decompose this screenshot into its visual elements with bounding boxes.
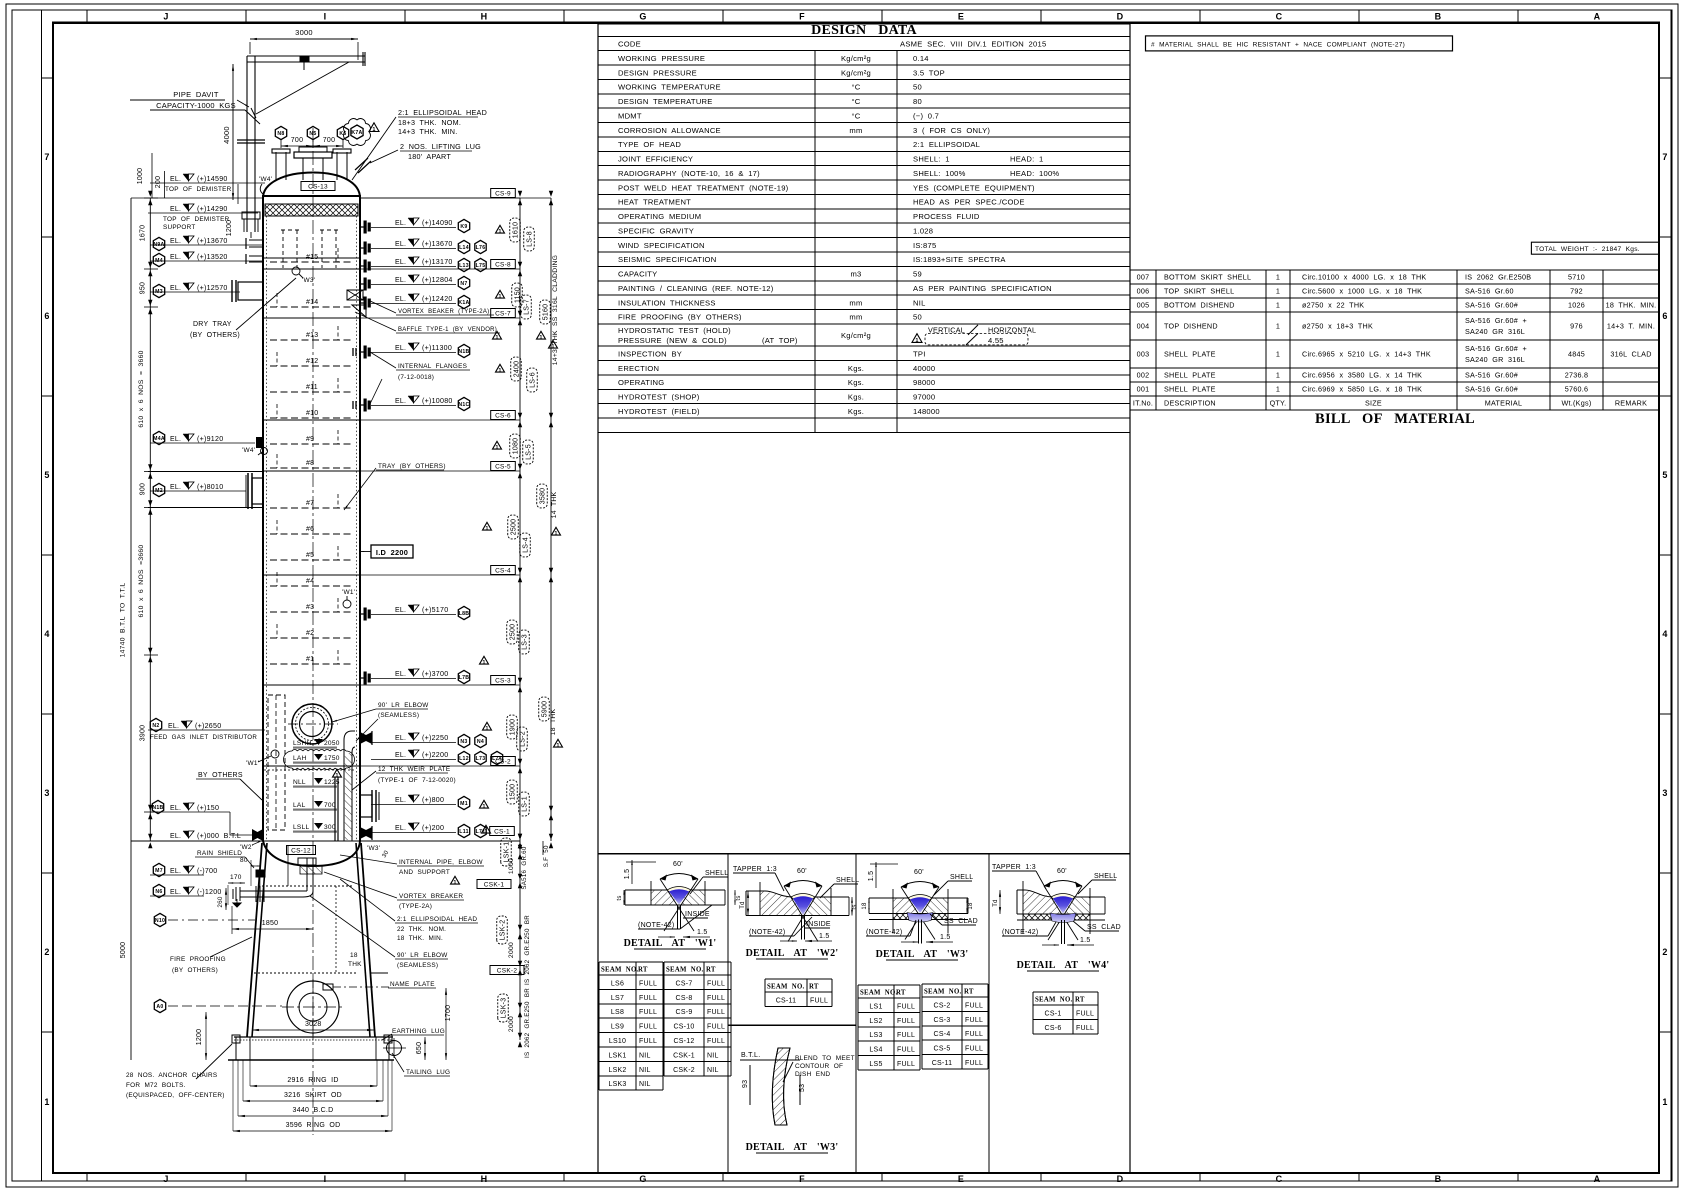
svg-text:1: 1 xyxy=(484,829,487,835)
svg-text:LS-4: LS-4 xyxy=(523,537,530,553)
svg-text:80: 80 xyxy=(913,97,922,106)
svg-text:SEAM NO.: SEAM NO. xyxy=(601,967,638,974)
svg-text:4: 4 xyxy=(44,629,49,639)
svg-text:OPERATING: OPERATING xyxy=(618,378,664,387)
svg-text:H: H xyxy=(481,12,488,22)
svg-text:H: H xyxy=(481,1174,488,1184)
svg-text:LSLL: LSLL xyxy=(293,824,309,831)
pipe davit xyxy=(246,56,248,232)
svg-text:NIL: NIL xyxy=(707,1052,719,1059)
svg-text:93: 93 xyxy=(742,1080,749,1088)
svg-text:EL.: EL. xyxy=(168,723,179,730)
svg-text:Circ.5600 x 1000 LG. x 18 THK: Circ.5600 x 1000 LG. x 18 THK xyxy=(1302,287,1422,296)
svg-text:CS-5: CS-5 xyxy=(495,464,511,471)
svg-text:FULL: FULL xyxy=(965,1002,983,1009)
weld detail panel borders xyxy=(598,854,1130,1173)
svg-text:#9: #9 xyxy=(306,436,314,443)
svg-text:EL.: EL. xyxy=(170,238,181,245)
svg-text:LS3: LS3 xyxy=(869,1032,882,1039)
svg-text:300: 300 xyxy=(324,824,336,831)
svg-text:N1C: N1C xyxy=(458,402,469,408)
svg-text:002: 002 xyxy=(1137,371,1150,380)
svg-text:FOR M72 BOLTS.: FOR M72 BOLTS. xyxy=(126,1082,186,1089)
svg-text:NIL: NIL xyxy=(707,1067,719,1074)
svg-text:I.D 2200: I.D 2200 xyxy=(376,548,408,557)
nozzle K6 on head xyxy=(336,152,338,180)
svg-text:IS:875: IS:875 xyxy=(913,241,936,250)
svg-text:ø2750 x 22 THK: ø2750 x 22 THK xyxy=(1302,301,1364,310)
skirt seam lines CSK-1 CSK-2 xyxy=(258,885,352,887)
svg-text:14+3 THK SS 316L CLADDING: 14+3 THK SS 316L CLADDING xyxy=(552,255,559,365)
svg-text:L13: L13 xyxy=(459,263,469,269)
svg-text:SPECIFIC GRAVITY: SPECIFIC GRAVITY xyxy=(618,226,694,235)
svg-text:N1B: N1B xyxy=(152,805,163,811)
svg-text:60': 60' xyxy=(673,861,683,868)
svg-text:2500: 2500 xyxy=(511,519,518,536)
svg-text:CS-3: CS-3 xyxy=(495,678,511,685)
svg-text:CS-11: CS-11 xyxy=(932,1060,953,1067)
svg-text:mm: mm xyxy=(849,126,862,135)
svg-text:LS-6: LS-6 xyxy=(530,372,537,388)
svg-text:(+)14090: (+)14090 xyxy=(422,219,453,227)
svg-text:EL.: EL. xyxy=(395,825,406,832)
svg-text:DESCRIPTION: DESCRIPTION xyxy=(1164,399,1216,408)
svg-text:EL.: EL. xyxy=(395,259,406,266)
svg-text:14+3 THK. MIN.: 14+3 THK. MIN. xyxy=(398,127,458,136)
svg-text:FULL: FULL xyxy=(639,1024,657,1031)
svg-text:(+)200: (+)200 xyxy=(422,824,444,832)
svg-text:SEAM NO.: SEAM NO. xyxy=(767,984,804,991)
svg-text:SEISMIC SPECIFICATION: SEISMIC SPECIFICATION xyxy=(618,255,716,264)
layout divider lines xyxy=(597,23,599,1173)
weld detail W3 sketch xyxy=(893,898,919,914)
svg-text:FULL: FULL xyxy=(1076,1025,1094,1032)
svg-text:DESIGN PRESSURE: DESIGN PRESSURE xyxy=(618,68,697,77)
svg-text:A: A xyxy=(1594,12,1601,22)
svg-text:4845: 4845 xyxy=(1568,350,1585,359)
svg-text:K7A: K7A xyxy=(351,130,362,136)
svg-text:PRESSURE (NEW & COLD): PRESSURE (NEW & COLD) xyxy=(618,336,727,345)
svg-text:K9: K9 xyxy=(460,224,467,230)
svg-text:(+)9120: (+)9120 xyxy=(197,435,223,443)
svg-text:1500: 1500 xyxy=(510,784,517,801)
svg-text:(+)10080: (+)10080 xyxy=(422,397,453,405)
2:1 ellipsoidal bottom head xyxy=(263,841,360,866)
svg-text:LSHH: LSHH xyxy=(293,740,312,747)
svg-text:(+)2250: (+)2250 xyxy=(422,734,448,742)
svg-text:#8: #8 xyxy=(306,460,314,467)
svg-text:1: 1 xyxy=(495,335,498,341)
svg-text:2736.8: 2736.8 xyxy=(1565,371,1588,380)
svg-text:Kgs.: Kgs. xyxy=(848,407,864,416)
svg-text:L7B: L7B xyxy=(459,675,470,681)
svg-text:CS-1: CS-1 xyxy=(494,829,510,836)
svg-text:(+)5170: (+)5170 xyxy=(422,606,448,614)
svg-text:N5: N5 xyxy=(309,131,316,137)
svg-text:INSIDE: INSIDE xyxy=(806,921,831,928)
svg-text:CSK-1: CSK-1 xyxy=(484,882,505,889)
svg-text:1026: 1026 xyxy=(1568,301,1585,310)
svg-text:BLEND TO MEET: BLEND TO MEET xyxy=(795,1055,855,1062)
seam RT table for detail W2 xyxy=(765,979,832,1006)
svg-text:(TYPE-2A): (TYPE-2A) xyxy=(399,903,432,910)
CS seam labels and right dimension chain xyxy=(491,189,516,198)
vessel shell walls xyxy=(262,198,264,841)
svg-text:LSK3: LSK3 xyxy=(608,1081,626,1088)
svg-text:700: 700 xyxy=(323,137,335,144)
svg-text:1225: 1225 xyxy=(324,779,340,786)
HIC/NACE material note box xyxy=(1146,36,1453,51)
svg-text:1000: 1000 xyxy=(137,168,144,185)
svg-text:ASME SEC. VIII DIV.1 EDITION 2: ASME SEC. VIII DIV.1 EDITION 2015 xyxy=(900,39,1046,48)
davit arm dimension 3000 xyxy=(250,38,358,40)
svg-text:(7-12-0018): (7-12-0018) xyxy=(398,374,434,381)
DESIGN DATA table xyxy=(598,24,1130,36)
svg-text:LAL: LAL xyxy=(293,802,306,809)
svg-text:CS-2: CS-2 xyxy=(934,1002,951,1009)
svg-text:1000: 1000 xyxy=(508,858,515,874)
svg-text:1750: 1750 xyxy=(324,755,340,762)
svg-text:EL.: EL. xyxy=(170,484,181,491)
svg-text:OPERATING MEDIUM: OPERATING MEDIUM xyxy=(618,212,701,221)
svg-text:B: B xyxy=(1435,12,1442,22)
support skirt cone xyxy=(252,843,267,1037)
svg-text:J: J xyxy=(163,1174,168,1184)
weld detail W4 sketch xyxy=(1023,890,1062,914)
svg-text:Kg/cm²g: Kg/cm²g xyxy=(841,54,871,63)
svg-text:SS CLAD: SS CLAD xyxy=(944,918,978,925)
davit mast dimension 4000 xyxy=(232,64,234,200)
svg-text:JOINT EFFICIENCY: JOINT EFFICIENCY xyxy=(618,155,693,164)
svg-text:#5: #5 xyxy=(306,552,314,559)
svg-text:N3: N3 xyxy=(460,739,467,745)
svg-text:#13: #13 xyxy=(306,332,318,339)
svg-text:N2: N2 xyxy=(152,723,159,729)
svg-text:FULL: FULL xyxy=(639,1009,657,1016)
svg-text:'W3': 'W3' xyxy=(302,277,315,284)
svg-text:HYDROSTATIC TEST (HOLD): HYDROSTATIC TEST (HOLD) xyxy=(618,326,731,335)
svg-text:WIND SPECIFICATION: WIND SPECIFICATION xyxy=(618,241,705,250)
svg-text:CSK-2: CSK-2 xyxy=(673,1067,695,1074)
svg-text:SHELL: 1: SHELL: 1 xyxy=(913,155,950,164)
svg-text:THK: THK xyxy=(348,961,362,968)
svg-text:INSPECTION BY: INSPECTION BY xyxy=(618,349,682,358)
svg-text:Kg/cm²g: Kg/cm²g xyxy=(841,68,871,77)
svg-text:IS:1893+SITE SPECTRA: IS:1893+SITE SPECTRA xyxy=(913,255,1006,264)
vortex breaker xyxy=(300,866,322,874)
svg-text:EL.: EL. xyxy=(170,833,181,840)
svg-text:FULL: FULL xyxy=(965,1060,983,1067)
svg-text:#7: #7 xyxy=(306,500,314,507)
svg-text:HEAD: 1: HEAD: 1 xyxy=(1010,155,1044,164)
svg-text:14740 B.T.L TO T.T.L: 14740 B.T.L TO T.T.L xyxy=(120,583,127,658)
svg-text:TOP OF DEMISTER: TOP OF DEMISTER xyxy=(163,216,230,223)
svg-text:1900: 1900 xyxy=(510,719,517,736)
svg-text:IS 2062 Gr.E250B: IS 2062 Gr.E250B xyxy=(1465,273,1531,282)
weld detail W2 sketch xyxy=(760,891,802,916)
svg-text:HYDROTEST (SHOP): HYDROTEST (SHOP) xyxy=(618,393,700,402)
skirt seam chain labels xyxy=(519,841,521,1040)
svg-text:LAH: LAH xyxy=(293,755,307,762)
svg-text:1: 1 xyxy=(495,445,498,451)
svg-text:ts: ts xyxy=(852,904,858,909)
svg-text:EL.: EL. xyxy=(395,735,406,742)
svg-text:CS-13: CS-13 xyxy=(308,184,328,191)
svg-text:1.028: 1.028 xyxy=(913,226,933,235)
svg-text:1: 1 xyxy=(485,726,488,732)
svg-text:FIRE PROOFING: FIRE PROOFING xyxy=(170,956,226,963)
svg-text:EL.: EL. xyxy=(170,285,181,292)
svg-text:1: 1 xyxy=(1276,350,1280,359)
svg-text:NIL: NIL xyxy=(639,1067,651,1074)
svg-text:(SEAMLESS): (SEAMLESS) xyxy=(378,712,419,719)
svg-text:CS-7: CS-7 xyxy=(495,311,511,318)
svg-text:TOP SKIRT SHELL: TOP SKIRT SHELL xyxy=(1164,287,1234,296)
svg-text:SIZE: SIZE xyxy=(1365,399,1382,408)
svg-text:EL.: EL. xyxy=(395,345,406,352)
svg-text:BILL OF MATERIAL: BILL OF MATERIAL xyxy=(1315,411,1475,427)
svg-text:(+)12804: (+)12804 xyxy=(422,276,453,284)
svg-text:LS9: LS9 xyxy=(611,1024,624,1031)
svg-text:5: 5 xyxy=(44,470,49,480)
bottom head outlet plate xyxy=(298,858,316,865)
svg-text:(+)14290: (+)14290 xyxy=(197,205,228,213)
svg-text:DETAIL AT 'W4': DETAIL AT 'W4' xyxy=(1017,960,1110,971)
svg-text:VORTEX BREAKER: VORTEX BREAKER xyxy=(399,893,463,900)
seam RT table for detail W4 xyxy=(1033,992,1098,1034)
svg-text:CS-10: CS-10 xyxy=(673,1024,694,1031)
svg-text:#4: #4 xyxy=(306,578,314,585)
svg-text:FULL: FULL xyxy=(897,1003,915,1010)
svg-text:260: 260 xyxy=(217,896,224,908)
svg-text:TRAY (BY OTHERS): TRAY (BY OTHERS) xyxy=(378,463,446,470)
svg-text:CS-8: CS-8 xyxy=(495,262,511,269)
svg-text:18 THK. MIN.: 18 THK. MIN. xyxy=(397,935,443,942)
svg-text:SHELL PLATE: SHELL PLATE xyxy=(1164,385,1216,394)
svg-text:0.14: 0.14 xyxy=(913,54,929,63)
svg-text:1.5: 1.5 xyxy=(1080,937,1090,944)
svg-text:80: 80 xyxy=(240,857,248,864)
svg-text:E: E xyxy=(958,1174,964,1184)
svg-text:005: 005 xyxy=(1137,301,1150,310)
svg-text:1: 1 xyxy=(1276,273,1280,282)
svg-text:CS-12: CS-12 xyxy=(291,848,311,855)
svg-text:53: 53 xyxy=(799,1084,806,1092)
svg-text:FIRE PROOFING (BY OTHERS): FIRE PROOFING (BY OTHERS) xyxy=(618,313,742,322)
svg-text:N6: N6 xyxy=(155,889,162,895)
nozzle N8 on head xyxy=(275,152,277,180)
base ring assembly xyxy=(252,1029,374,1031)
svg-text:M4A: M4A xyxy=(153,436,165,442)
svg-text:5: 5 xyxy=(1662,470,1667,480)
svg-text:EL.: EL. xyxy=(170,889,181,896)
svg-text:MATERIAL: MATERIAL xyxy=(1485,399,1522,408)
circumferential seam lines xyxy=(263,268,360,270)
svg-text:(+)2200: (+)2200 xyxy=(422,751,448,759)
svg-text:LS2: LS2 xyxy=(869,1018,882,1025)
svg-text:CS-9: CS-9 xyxy=(676,1009,693,1016)
svg-text:ts: ts xyxy=(617,895,623,900)
nozzle N5 top center xyxy=(302,158,304,180)
svg-text:LSK1: LSK1 xyxy=(608,1052,626,1059)
svg-text:FULL: FULL xyxy=(707,980,725,987)
svg-text:°C: °C xyxy=(851,111,860,120)
svg-text:°C: °C xyxy=(851,97,860,106)
svg-text:N8: N8 xyxy=(277,131,284,137)
svg-text:Kg/cm²g: Kg/cm²g xyxy=(841,331,871,340)
svg-text:INTERNAL FLANGES: INTERNAL FLANGES xyxy=(398,363,467,370)
svg-text:1610: 1610 xyxy=(513,222,520,239)
svg-text:610 x 6 NOS =3660: 610 x 6 NOS =3660 xyxy=(138,545,145,618)
svg-text:(+)12570: (+)12570 xyxy=(197,284,228,292)
svg-text:SA-516 Gr.60# +: SA-516 Gr.60# + xyxy=(1465,344,1527,353)
svg-text:A: A xyxy=(1594,1174,1601,1184)
svg-text:1: 1 xyxy=(539,335,542,341)
svg-text:LS4: LS4 xyxy=(869,1047,882,1054)
svg-text:RT: RT xyxy=(809,984,819,991)
svg-text:FULL: FULL xyxy=(639,980,657,987)
svg-text:RT: RT xyxy=(896,990,906,997)
svg-text:2 NOS. LIFTING LUG: 2 NOS. LIFTING LUG xyxy=(400,142,481,151)
svg-text:1: 1 xyxy=(1276,301,1280,310)
svg-text:TOP OF DEMISTER: TOP OF DEMISTER xyxy=(165,186,232,193)
svg-text:1: 1 xyxy=(915,338,918,344)
svg-text:BAFFLE TYPE-1 (BY VENDOR): BAFFLE TYPE-1 (BY VENDOR) xyxy=(398,327,497,333)
svg-text:N7: N7 xyxy=(460,281,467,287)
lifting lug xyxy=(355,158,368,170)
svg-text:'W1': 'W1' xyxy=(246,760,259,767)
svg-text:TYPE OF HEAD: TYPE OF HEAD xyxy=(618,140,681,149)
svg-text:REMARK: REMARK xyxy=(1615,399,1647,408)
svg-text:FULL: FULL xyxy=(810,997,828,1004)
skirt blend detail W3 (lower) xyxy=(772,1048,790,1125)
svg-text:LS1: LS1 xyxy=(869,1003,882,1010)
svg-text:N10: N10 xyxy=(155,918,165,924)
svg-text:EL.: EL. xyxy=(395,797,406,804)
svg-text:IS 2062 GR.E250 BR: IS 2062 GR.E250 BR xyxy=(524,915,531,985)
svg-text:CS-1: CS-1 xyxy=(1045,1010,1062,1017)
svg-text:Circ.6969 x 5850 LG. x 18 THK: Circ.6969 x 5850 LG. x 18 THK xyxy=(1302,385,1422,394)
svg-text:2:1 ELLIPSOIDAL: 2:1 ELLIPSOIDAL xyxy=(913,140,980,149)
svg-text:F: F xyxy=(799,12,805,22)
svg-text:D: D xyxy=(1117,1174,1124,1184)
svg-text:SS CLAD: SS CLAD xyxy=(1087,924,1121,931)
svg-text:Td: Td xyxy=(740,901,746,909)
svg-text:18: 18 xyxy=(350,952,358,959)
svg-text:60': 60' xyxy=(1057,868,1067,875)
svg-text:L14: L14 xyxy=(459,245,469,251)
svg-text:(+)13170: (+)13170 xyxy=(422,258,453,266)
feed gas inlet 90 deg LR elbow xyxy=(292,704,332,744)
svg-text:FULL: FULL xyxy=(897,1061,915,1068)
svg-text:CSK-1: CSK-1 xyxy=(673,1052,695,1059)
svg-text:Kgs.: Kgs. xyxy=(848,393,864,402)
svg-text:30: 30 xyxy=(382,849,391,859)
svg-text:EL.: EL. xyxy=(170,254,181,261)
svg-text:(-)1200: (-)1200 xyxy=(197,888,222,896)
svg-text:INTERNAL PIPE, ELBOW: INTERNAL PIPE, ELBOW xyxy=(399,859,483,866)
svg-text:B.T.L.: B.T.L. xyxy=(741,1052,760,1059)
svg-text:(+)14590: (+)14590 xyxy=(197,175,228,183)
svg-text:DETAIL AT 'W3': DETAIL AT 'W3' xyxy=(746,1142,839,1153)
svg-text:(NOTE-42): (NOTE-42) xyxy=(749,929,785,936)
svg-text:NIL: NIL xyxy=(639,1052,651,1059)
svg-text:18 THK: 18 THK xyxy=(550,708,557,735)
svg-text:610 x 6 NOS = 3660: 610 x 6 NOS = 3660 xyxy=(138,350,145,427)
svg-text:FULL: FULL xyxy=(965,1031,983,1038)
svg-text:L75: L75 xyxy=(476,263,486,269)
nozzles N3/N4 and L11/L71 flanges xyxy=(360,732,372,744)
svg-text:mm: mm xyxy=(849,313,862,322)
svg-text:(-)700: (-)700 xyxy=(197,867,217,875)
svg-text:CAPACITY: CAPACITY xyxy=(618,270,657,279)
nozzles M4 and N9A left wall xyxy=(249,239,263,241)
svg-text:1: 1 xyxy=(554,531,557,537)
svg-text:SEAM NO.: SEAM NO. xyxy=(924,989,961,996)
svg-text:HEAD: 100%: HEAD: 100% xyxy=(1010,169,1059,178)
svg-text:F: F xyxy=(799,1174,805,1184)
svg-text:AND SUPPORT: AND SUPPORT xyxy=(399,869,450,876)
seam label CS-12 xyxy=(287,846,316,855)
svg-text:(EQUISPACED, OFF-CENTER): (EQUISPACED, OFF-CENTER) xyxy=(126,1092,225,1099)
svg-text:TOTAL WEIGHT :- 21847 Kgs.: TOTAL WEIGHT :- 21847 Kgs. xyxy=(1535,246,1640,253)
svg-text:CS-7: CS-7 xyxy=(676,980,693,987)
svg-text:#1: #1 xyxy=(306,656,314,663)
svg-text:MDMT: MDMT xyxy=(618,111,642,120)
svg-text:'W2': 'W2' xyxy=(240,844,253,851)
svg-text:EL.: EL. xyxy=(170,206,181,213)
svg-text:(−) 0.7: (−) 0.7 xyxy=(913,111,939,120)
svg-text:2:1 ELLIPSOIDAL HEAD: 2:1 ELLIPSOIDAL HEAD xyxy=(397,916,477,923)
svg-text:# MATERIAL SHALL BE HIC RESIST: # MATERIAL SHALL BE HIC RESISTANT + NACE… xyxy=(1151,42,1405,49)
svg-text:'W1': 'W1' xyxy=(342,589,355,596)
svg-text:SHELL PLATE: SHELL PLATE xyxy=(1164,371,1216,380)
manways M3 and M2 left wall xyxy=(238,282,263,300)
svg-text:3216 SKIRT OD: 3216 SKIRT OD xyxy=(284,1092,342,1099)
svg-text:L8B: L8B xyxy=(459,611,470,617)
svg-text:CORROSION ALLOWANCE: CORROSION ALLOWANCE xyxy=(618,126,721,135)
svg-text:#2: #2 xyxy=(306,630,314,637)
svg-text:CS-6: CS-6 xyxy=(495,413,511,420)
svg-text:(SEAMLESS): (SEAMLESS) xyxy=(397,962,438,969)
svg-text:1: 1 xyxy=(1662,1097,1667,1107)
svg-text:(+)2650: (+)2650 xyxy=(195,722,221,730)
svg-text:LS-3: LS-3 xyxy=(522,634,529,650)
svg-text:CS-9: CS-9 xyxy=(495,191,511,198)
svg-text:LS7: LS7 xyxy=(611,995,624,1002)
svg-text:TPI: TPI xyxy=(913,349,926,358)
svg-text:FULL: FULL xyxy=(707,1009,725,1016)
svg-text:RT: RT xyxy=(706,967,716,974)
svg-text:SA-516 Gr.60#: SA-516 Gr.60# xyxy=(1465,371,1518,380)
svg-text:(+)13670: (+)13670 xyxy=(197,237,228,245)
svg-text:CS-5: CS-5 xyxy=(934,1046,951,1053)
svg-text:60': 60' xyxy=(914,869,924,876)
svg-text:3580: 3580 xyxy=(540,488,547,505)
svg-text:Circ.6965 x 5210 LG. x 14+3 TH: Circ.6965 x 5210 LG. x 14+3 THK xyxy=(1302,350,1431,359)
svg-text:RAIN SHIELD: RAIN SHIELD xyxy=(197,850,242,857)
svg-text:I: I xyxy=(324,12,327,22)
svg-text:1: 1 xyxy=(1276,322,1280,331)
svg-text:DETAIL AT 'W2': DETAIL AT 'W2' xyxy=(746,948,839,959)
svg-text:CONTOUR OF: CONTOUR OF xyxy=(795,1063,843,1070)
svg-text:2500: 2500 xyxy=(510,624,517,641)
svg-text:HEAT TREATMENT: HEAT TREATMENT xyxy=(618,198,691,207)
svg-text:CS-8: CS-8 xyxy=(676,995,693,1002)
svg-text:DESIGN TEMPERATURE: DESIGN TEMPERATURE xyxy=(618,97,713,106)
svg-text:EL.: EL. xyxy=(395,220,406,227)
demister supports (dashed) xyxy=(282,230,284,268)
